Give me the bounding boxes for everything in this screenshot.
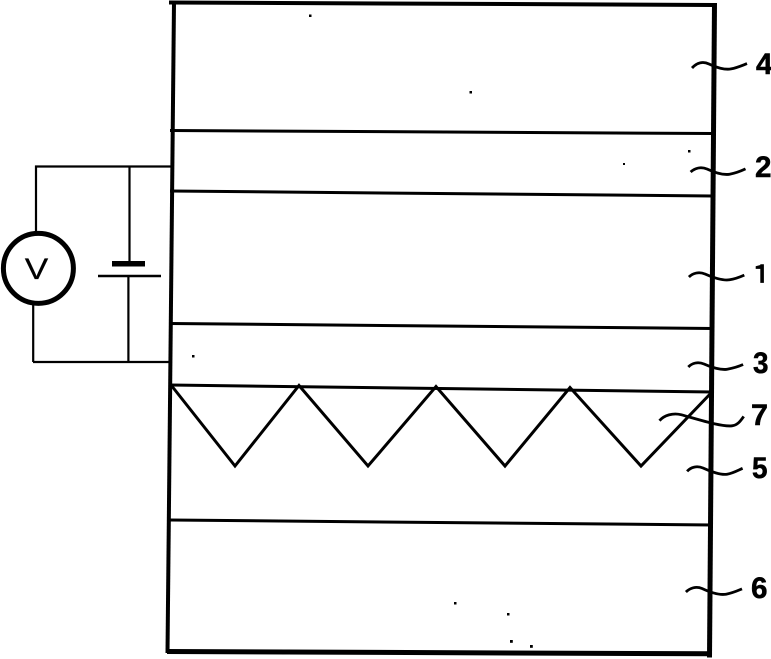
leader squiggle 1 [689, 273, 744, 280]
layer boundary 2/1 [170, 191, 713, 196]
layer boundary 1/3 [170, 324, 713, 329]
leader squiggle 6 [686, 587, 742, 594]
svg-text:5: 5 [752, 452, 768, 485]
zigzag layer 7 [171, 385, 712, 466]
svg-text:2: 2 [755, 151, 771, 184]
wire below voltmeter [32, 303, 34, 362]
leader squiggle 2 [691, 168, 746, 175]
svg-text:4: 4 [756, 48, 771, 81]
battery negative plate [98, 275, 161, 278]
wire left vertical [35, 166, 37, 233]
layer boundary 3/7 [170, 385, 713, 392]
layer stack outline (device body) [167, 2, 715, 658]
svg-text:3: 3 [753, 347, 769, 380]
svg-text:V: V [25, 253, 49, 286]
leader squiggle 7 [660, 414, 744, 426]
speckles [192, 15, 691, 648]
leader squiggle 3 [688, 363, 743, 370]
voltmeter V [3, 233, 73, 303]
layer boundary 4/2 [170, 131, 713, 134]
wire battery top [128, 167, 130, 262]
wire bottom [33, 361, 171, 363]
leader squiggle 5 [687, 467, 743, 475]
wire top [35, 165, 171, 167]
label 1 [756, 264, 764, 283]
svg-text:7: 7 [751, 399, 768, 432]
battery positive plate [112, 261, 145, 267]
wire battery bottom [127, 277, 129, 362]
svg-text:6: 6 [751, 572, 768, 605]
layer boundary 5/6 [170, 520, 713, 525]
leader squiggle 4 [692, 62, 747, 69]
